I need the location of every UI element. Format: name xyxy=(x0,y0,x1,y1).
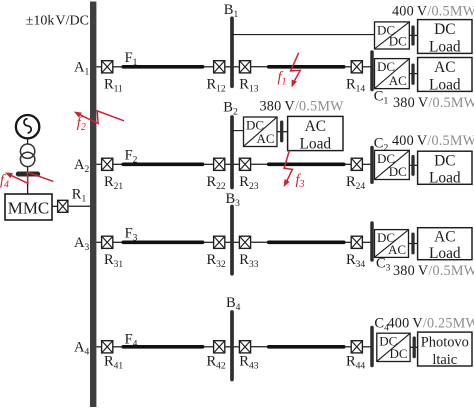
coupling bar AC load 2 xyxy=(280,122,283,141)
feeder F1 trunk segment 1 xyxy=(123,65,202,69)
bus C3 xyxy=(370,223,374,260)
svg-text:AC: AC xyxy=(434,229,455,246)
breaker R24 xyxy=(351,158,362,170)
wire bus to R31 xyxy=(96,241,101,243)
wire MMC to breaker R1 xyxy=(52,205,57,207)
wire R41 to trunk xyxy=(113,346,123,348)
wire bus to R41 xyxy=(96,346,101,348)
svg-text:AC: AC xyxy=(305,118,326,135)
load box DC Load 2 xyxy=(418,151,472,186)
bus C2 xyxy=(370,148,374,183)
svg-text:400 V/0.5MW: 400 V/0.5MW xyxy=(392,4,474,20)
wire trunk to R42 xyxy=(203,346,213,348)
breaker R32 xyxy=(214,236,225,248)
svg-text:DC: DC xyxy=(434,152,455,169)
breaker R22 xyxy=(214,158,225,170)
junction busbar at MMC input xyxy=(18,172,37,177)
wire converter to coupling bar xyxy=(409,243,419,245)
svg-text:±10k V/DC: ±10k V/DC xyxy=(26,14,89,29)
wire bus to R21 xyxy=(96,163,101,165)
svg-text:400 V/0.5MW: 400 V/0.5MW xyxy=(392,133,474,149)
converter U12 (DC/AC) xyxy=(375,59,410,89)
wire R21 to trunk xyxy=(113,163,123,165)
wire junction bar to MMC xyxy=(27,174,29,194)
fault lightning bolt f3 xyxy=(284,150,293,187)
bus B2 xyxy=(230,117,234,188)
feeder F1 trunk segment 2 xyxy=(269,65,344,69)
load box AC Load 1 xyxy=(418,58,472,94)
breaker R33 xyxy=(239,236,250,248)
svg-text:AC: AC xyxy=(434,59,455,76)
svg-text:AC: AC xyxy=(388,242,406,257)
svg-text:AC: AC xyxy=(389,73,407,88)
wire converter to coupling bar xyxy=(409,164,418,166)
breaker R21 xyxy=(102,158,113,170)
fault lightning bolt f4 xyxy=(5,172,53,183)
wire R43 to trunk 2 xyxy=(251,346,269,348)
wire R33 to trunk 2 xyxy=(251,241,269,243)
coupling bar AC load 1 xyxy=(411,65,414,83)
transformer T1 xyxy=(20,144,34,167)
wire R42 to R43 across bus B4 xyxy=(225,346,238,348)
svg-text:380 V/0.5MW: 380 V/0.5MW xyxy=(393,95,474,111)
breaker R31 xyxy=(102,236,113,248)
wire R14 to bus C1 xyxy=(363,66,372,68)
main DC bus xyxy=(90,2,96,408)
svg-text:380 V/0.5MW: 380 V/0.5MW xyxy=(393,263,474,279)
feeder F4 trunk segment 2 xyxy=(269,345,344,349)
feeder F2 trunk segment 1 xyxy=(123,163,202,167)
wire trunk to R32 xyxy=(203,241,213,243)
wire converter to coupling bar xyxy=(409,34,418,36)
svg-text:DC: DC xyxy=(377,59,395,74)
converter U31 (DC/AC) xyxy=(375,230,409,258)
wire R44 to bus C4 xyxy=(363,346,372,348)
svg-text:DC: DC xyxy=(389,164,407,179)
wire trunk to R44 xyxy=(344,346,351,348)
wire trunk to R12 xyxy=(203,66,213,68)
wire R12 to R13 across bus B1 xyxy=(225,66,238,68)
branch wire B1 to DC/DC converter xyxy=(232,34,375,36)
converter U11 (DC/DC) xyxy=(375,22,410,49)
coupling bar DC load 2 xyxy=(411,157,414,175)
svg-text:Load: Load xyxy=(429,245,461,262)
wire converter to coupling bar xyxy=(410,346,418,348)
feeder F4 trunk segment 1 xyxy=(123,345,202,349)
wire R24 to bus C2 xyxy=(363,163,372,165)
svg-text:400 V/0.25MW: 400 V/0.25MW xyxy=(388,315,474,331)
coupling bar photovoltaic xyxy=(413,338,416,357)
breaker R1 xyxy=(58,200,68,212)
breaker R34 xyxy=(351,236,362,248)
wire R32 to R33 across bus B3 xyxy=(225,241,238,243)
coupling bar AC load 3 xyxy=(411,234,414,253)
svg-text:Photovo: Photovo xyxy=(421,335,469,351)
wire converter to coupling bar xyxy=(277,131,288,133)
svg-text:DC: DC xyxy=(390,346,408,361)
load box DC Load 1 xyxy=(418,20,472,56)
breaker R42 xyxy=(214,341,225,353)
wire trunk to R34 xyxy=(344,241,351,243)
bus B1 xyxy=(230,18,234,86)
wire R23 to trunk 2 xyxy=(251,163,269,165)
svg-text:380 V/0.5MW: 380 V/0.5MW xyxy=(260,99,345,115)
AC grid source G xyxy=(16,115,39,138)
svg-text:ltaic: ltaic xyxy=(432,352,457,368)
fault lightning bolt f1 xyxy=(291,53,301,88)
bus C4 xyxy=(370,328,374,366)
load box AC Load 2 xyxy=(288,116,343,152)
wire R13 to trunk 2 xyxy=(251,66,269,68)
svg-text:MMC: MMC xyxy=(8,199,50,218)
svg-text:Load: Load xyxy=(429,170,461,187)
wire transformer to junction bar xyxy=(27,167,29,174)
branch wire B2 to DC/AC converter xyxy=(232,130,244,132)
fault lightning bolt f2 xyxy=(74,111,124,124)
svg-text:Load: Load xyxy=(429,77,461,94)
breaker R13 xyxy=(239,61,250,73)
breaker R11 xyxy=(102,61,113,73)
wire bus to R11 xyxy=(96,66,101,68)
breaker R41 xyxy=(102,341,113,353)
wire trunk to R24 xyxy=(344,163,351,165)
svg-text:AC: AC xyxy=(256,131,274,146)
svg-text:DC: DC xyxy=(434,21,455,38)
wire R11 to trunk xyxy=(113,66,123,68)
wire trunk to R22 xyxy=(203,163,213,165)
feeder F3 trunk segment 2 xyxy=(269,241,344,245)
feeder F3 trunk segment 1 xyxy=(123,241,202,245)
breaker R43 xyxy=(239,341,250,353)
wire source to transformer xyxy=(27,138,29,144)
coupling bar DC load 1 xyxy=(411,27,414,44)
wire R34 to bus C3 xyxy=(363,241,372,243)
svg-text:Load: Load xyxy=(299,136,331,153)
converter U21 (DC/AC) xyxy=(244,117,278,147)
breaker R44 xyxy=(351,341,362,353)
wire R31 to trunk xyxy=(113,241,123,243)
converter U22 (DC/DC) xyxy=(375,150,410,179)
wire R22 to R23 across bus B2 xyxy=(225,163,238,165)
breaker R14 xyxy=(351,61,362,73)
MMC converter block xyxy=(5,194,52,220)
wire R1 to main bus xyxy=(69,205,91,207)
load box AC Load 3 xyxy=(418,228,472,262)
wire trunk to R14 xyxy=(344,66,351,68)
load box Photovoltaic source xyxy=(418,332,472,368)
svg-text:Load: Load xyxy=(429,39,461,56)
converter U41 (DC/DC) xyxy=(377,333,410,361)
bus B4 xyxy=(230,312,234,380)
svg-text:DC: DC xyxy=(389,34,407,49)
breaker R23 xyxy=(239,158,250,170)
bus B3 xyxy=(230,207,234,274)
wire converter to coupling bar xyxy=(409,73,418,75)
bus C1 xyxy=(370,52,374,90)
feeder F2 trunk segment 2 xyxy=(269,163,344,167)
breaker R12 xyxy=(214,61,225,73)
